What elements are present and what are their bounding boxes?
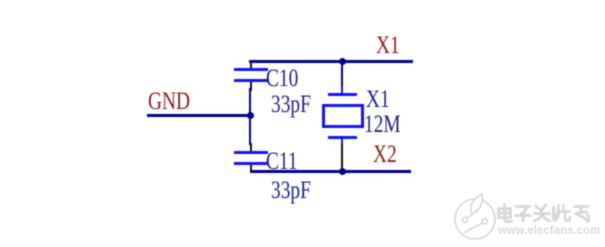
label C11 (266, 149, 298, 174)
wire GND horizontal (147, 114, 251, 117)
crystal X1 plate bottom (328, 136, 357, 139)
value 12M (364, 112, 401, 137)
crystal X1 stub top blue (341, 86, 344, 94)
crystal X1 body rectangle (322, 104, 364, 128)
wire left vertical between C10 and C11 (249, 88, 252, 145)
wire bottom rail X2 (250, 170, 411, 173)
net label GND (148, 89, 190, 114)
capacitor C11 plates (234, 151, 268, 154)
watermark logo elecfans (450, 188, 605, 247)
watermark text 电子发烧友 (496, 202, 591, 224)
net label X1 (376, 33, 400, 58)
capacitor C11 pin top (250, 143, 252, 152)
value 33pF bottom (271, 178, 311, 203)
label X1 crystal (366, 87, 390, 112)
crystal X1 pin top black (341, 75, 343, 87)
capacitor C10 plates (234, 68, 268, 71)
value 33pF top (271, 92, 311, 117)
wire top rail X1 (249, 60, 413, 63)
crystal X1 plate top (328, 93, 357, 96)
node junction bottom rail (339, 168, 346, 175)
node junction GND (247, 112, 254, 119)
wire middle vertical below top rail (341, 61, 344, 77)
capacitor C10 pin top (250, 61, 252, 69)
capacitor C11 pin bottom (250, 164, 252, 172)
net label X2 (373, 142, 397, 167)
node junction top rail (339, 58, 346, 65)
crystal X1 stub bottom blue (341, 139, 344, 145)
label C10 (266, 66, 298, 91)
capacitor C10 pin bottom (250, 81, 252, 91)
crystal X1 pin bottom black (341, 144, 343, 170)
watermark text www.elecfans.com (498, 224, 600, 236)
